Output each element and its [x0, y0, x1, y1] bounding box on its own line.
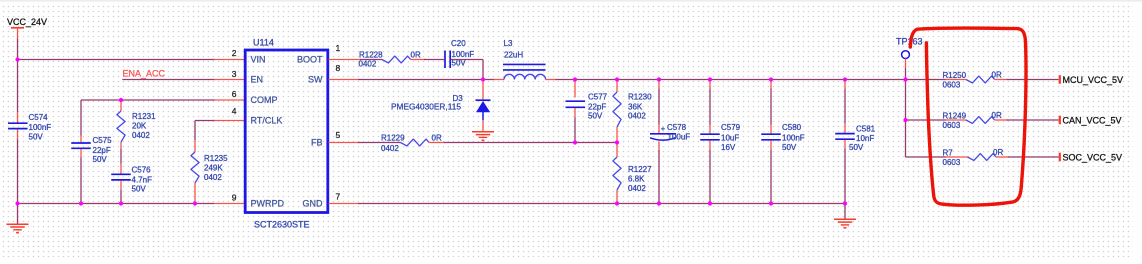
svg-text:R1249: R1249 [943, 111, 967, 120]
svg-text:2: 2 [232, 48, 237, 58]
svg-text:EN: EN [251, 75, 264, 85]
svg-text:50V: 50V [93, 155, 108, 164]
svg-text:16V: 16V [721, 143, 736, 152]
svg-text:MCU_VCC_5V: MCU_VCC_5V [1063, 75, 1124, 85]
svg-text:R1228: R1228 [359, 51, 383, 60]
svg-text:R7: R7 [943, 148, 954, 157]
svg-text:4.7nF: 4.7nF [132, 176, 153, 185]
svg-text:+: + [661, 124, 666, 133]
svg-text:CAN_VCC_5V: CAN_VCC_5V [1063, 116, 1122, 126]
svg-text:BOOT: BOOT [297, 55, 323, 65]
svg-text:50V: 50V [849, 143, 864, 152]
svg-text:COMP: COMP [251, 95, 278, 105]
svg-text:SW: SW [308, 75, 323, 85]
svg-text:C20: C20 [451, 39, 466, 48]
svg-text:22uH: 22uH [504, 51, 523, 60]
svg-text:100uF: 100uF [668, 133, 691, 142]
svg-text:R1230: R1230 [628, 93, 652, 102]
svg-text:L3: L3 [504, 39, 513, 48]
svg-text:4: 4 [232, 106, 237, 116]
svg-text:VIN: VIN [251, 55, 266, 65]
svg-text:PMEG4030ER,115: PMEG4030ER,115 [391, 102, 461, 112]
svg-text:50V: 50V [29, 133, 44, 142]
svg-text:8: 8 [336, 63, 341, 73]
svg-text:0603: 0603 [943, 158, 961, 167]
svg-text:0R: 0R [992, 111, 1002, 120]
svg-text:FB: FB [311, 138, 323, 148]
svg-text:SOC_VCC_5V: SOC_VCC_5V [1063, 153, 1123, 163]
svg-text:U114: U114 [253, 38, 274, 48]
svg-text:C577: C577 [588, 93, 608, 102]
svg-text:GND: GND [303, 199, 324, 209]
svg-text:50V: 50V [588, 111, 603, 120]
svg-text:0R: 0R [993, 148, 1003, 157]
svg-text:C579: C579 [721, 123, 741, 132]
svg-text:0402: 0402 [204, 173, 222, 182]
svg-text:R1227: R1227 [628, 165, 652, 174]
svg-text:5: 5 [336, 130, 341, 140]
svg-text:6: 6 [232, 89, 237, 99]
svg-text:249K: 249K [204, 164, 223, 173]
svg-text:R1235: R1235 [204, 154, 228, 163]
svg-text:3: 3 [232, 69, 237, 79]
svg-text:ENA_ACC: ENA_ACC [123, 69, 166, 79]
svg-text:C575: C575 [93, 136, 113, 145]
svg-text:1: 1 [336, 43, 341, 53]
svg-text:C578: C578 [667, 123, 687, 132]
svg-text:0R: 0R [432, 134, 442, 143]
svg-text:0R: 0R [992, 71, 1002, 80]
svg-text:50V: 50V [782, 143, 797, 152]
svg-text:C581: C581 [856, 125, 876, 134]
svg-text:C576: C576 [132, 166, 152, 175]
svg-text:22pF: 22pF [588, 103, 606, 112]
svg-text:RT/CLK: RT/CLK [251, 116, 283, 126]
svg-text:0402: 0402 [628, 184, 646, 193]
svg-text:R1229: R1229 [381, 134, 405, 143]
svg-text:10nF: 10nF [856, 134, 874, 143]
svg-text:100nF: 100nF [782, 134, 805, 143]
svg-text:9: 9 [232, 193, 237, 203]
svg-text:0402: 0402 [628, 111, 646, 120]
svg-text:20K: 20K [132, 122, 147, 131]
svg-text:0402: 0402 [359, 60, 377, 69]
svg-text:0402: 0402 [132, 131, 150, 140]
svg-text:SCT2630STE: SCT2630STE [254, 220, 310, 230]
svg-text:50V: 50V [132, 185, 147, 194]
svg-text:PWRPD: PWRPD [251, 199, 285, 209]
svg-text:10uF: 10uF [721, 134, 739, 143]
svg-text:0402: 0402 [381, 144, 399, 153]
svg-text:100nF: 100nF [29, 123, 52, 132]
svg-text:0603: 0603 [943, 81, 961, 90]
svg-text:6.8K: 6.8K [628, 175, 645, 184]
svg-text:R1231: R1231 [132, 112, 156, 121]
svg-text:36K: 36K [628, 103, 643, 112]
svg-text:C574: C574 [29, 113, 49, 122]
svg-text:C580: C580 [782, 123, 802, 132]
svg-text:VCC_24V: VCC_24V [7, 17, 47, 27]
svg-text:0R: 0R [411, 51, 421, 60]
svg-text:0603: 0603 [943, 121, 961, 130]
svg-text:R1250: R1250 [943, 71, 967, 80]
svg-text:22pF: 22pF [93, 146, 111, 155]
svg-text:7: 7 [336, 192, 341, 202]
